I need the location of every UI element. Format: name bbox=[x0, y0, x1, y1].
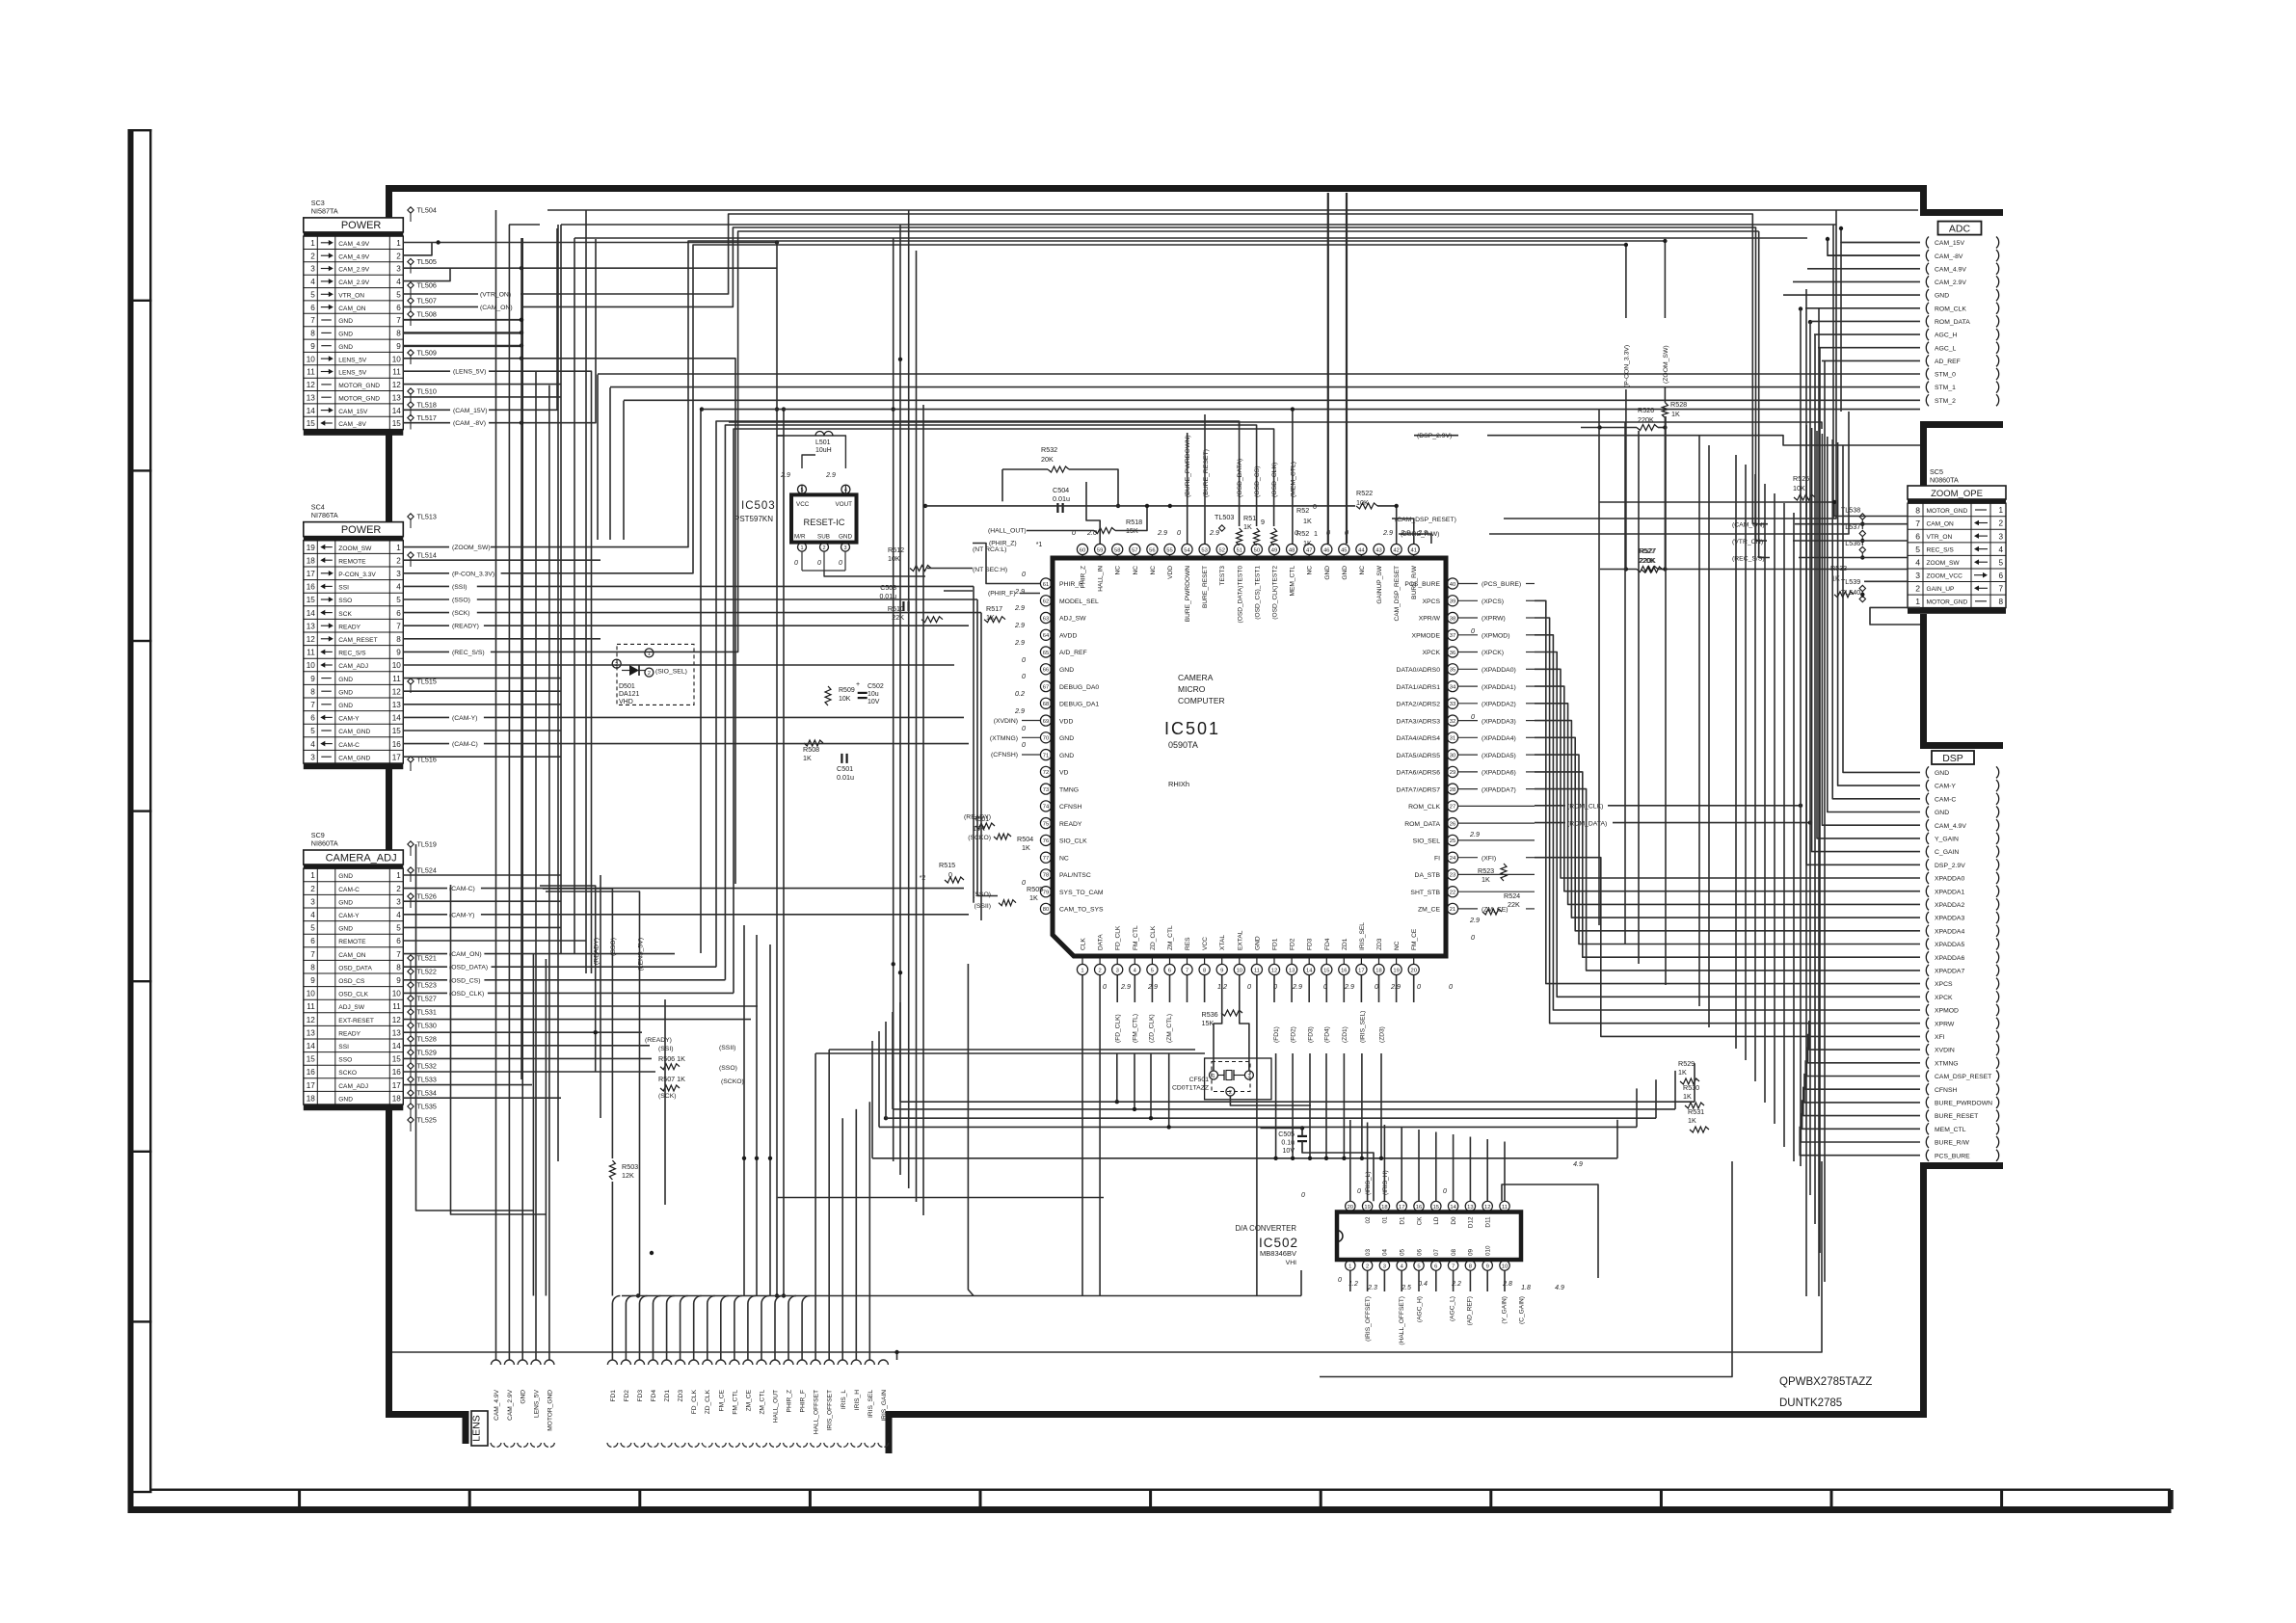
svg-text:0: 0 bbox=[1022, 570, 1026, 578]
svg-text:7: 7 bbox=[310, 701, 315, 709]
svg-text:07: 07 bbox=[1433, 1248, 1440, 1256]
svg-text:(SSO): (SSO) bbox=[719, 1065, 737, 1072]
svg-text:DEBUG_DA0: DEBUG_DA0 bbox=[1059, 684, 1099, 691]
svg-text:42: 42 bbox=[1393, 547, 1399, 553]
svg-text:GND: GND bbox=[338, 344, 353, 351]
svg-text:15: 15 bbox=[392, 1055, 402, 1064]
svg-text:22K: 22K bbox=[1508, 900, 1520, 909]
svg-text:4: 4 bbox=[310, 740, 315, 749]
svg-text:(IRIS_SEL): (IRIS_SEL) bbox=[1359, 1011, 1366, 1043]
svg-text:16: 16 bbox=[1341, 968, 1347, 973]
svg-text:12: 12 bbox=[1271, 968, 1277, 973]
svg-text:D501: D501 bbox=[619, 683, 635, 690]
svg-text:15: 15 bbox=[307, 596, 316, 604]
svg-text:CAM-C: CAM-C bbox=[338, 887, 360, 893]
svg-text:D11: D11 bbox=[1485, 1216, 1492, 1228]
svg-text:TL510: TL510 bbox=[417, 387, 437, 396]
svg-text:2: 2 bbox=[310, 885, 315, 893]
svg-text:TL523: TL523 bbox=[417, 981, 437, 990]
svg-text:TL521: TL521 bbox=[417, 954, 437, 963]
svg-text:2: 2 bbox=[822, 545, 825, 551]
svg-text:2.9: 2.9 bbox=[1014, 706, 1025, 715]
svg-text:DATA7/ADRS7: DATA7/ADRS7 bbox=[1397, 786, 1441, 793]
svg-text:AD_REF: AD_REF bbox=[1935, 359, 1961, 365]
svg-text:3: 3 bbox=[396, 897, 401, 906]
svg-text:0: 0 bbox=[1357, 1188, 1361, 1195]
svg-text:CAM_TO_SYS: CAM_TO_SYS bbox=[1059, 907, 1104, 914]
svg-text:0: 0 bbox=[1471, 933, 1475, 942]
svg-text:SCKO: SCKO bbox=[338, 1070, 357, 1077]
svg-text:1K: 1K bbox=[1678, 1068, 1687, 1077]
svg-text:M/R: M/R bbox=[794, 534, 806, 541]
svg-text:PAL/NTSC: PAL/NTSC bbox=[1059, 872, 1091, 879]
svg-text:(SSII): (SSII) bbox=[719, 1045, 735, 1051]
svg-text:6: 6 bbox=[310, 714, 315, 723]
svg-text:TL532: TL532 bbox=[417, 1062, 437, 1071]
svg-text:010: 010 bbox=[1485, 1245, 1492, 1256]
svg-text:ZOOM_OPE: ZOOM_OPE bbox=[1931, 489, 1983, 499]
svg-text:COMPUTER: COMPUTER bbox=[1178, 696, 1225, 705]
svg-text:GND: GND bbox=[1324, 566, 1331, 580]
svg-text:TL533: TL533 bbox=[417, 1076, 437, 1084]
svg-text:46: 46 bbox=[1323, 547, 1329, 553]
svg-text:XTMNG: XTMNG bbox=[1935, 1060, 1959, 1067]
svg-text:14: 14 bbox=[307, 407, 316, 415]
svg-text:(AGC_L): (AGC_L) bbox=[1450, 1296, 1456, 1321]
svg-text:(OSD_DATA): (OSD_DATA) bbox=[1237, 459, 1243, 497]
svg-text:L501: L501 bbox=[815, 439, 831, 446]
svg-text:FM_CTL: FM_CTL bbox=[732, 1390, 738, 1415]
svg-text:7: 7 bbox=[1452, 1264, 1455, 1269]
svg-text:(ROM_CLK): (ROM_CLK) bbox=[1567, 804, 1603, 811]
svg-text:GND: GND bbox=[338, 1096, 353, 1103]
svg-text:3: 3 bbox=[1247, 1074, 1250, 1079]
svg-text:CAM_GND: CAM_GND bbox=[338, 755, 370, 761]
svg-text:13: 13 bbox=[307, 622, 316, 630]
svg-text:FD1: FD1 bbox=[1272, 938, 1279, 950]
svg-text:1: 1 bbox=[1314, 529, 1318, 538]
svg-text:17: 17 bbox=[307, 570, 316, 578]
svg-text:CAM_GND: CAM_GND bbox=[338, 729, 370, 735]
svg-text:R518: R518 bbox=[1126, 518, 1142, 526]
svg-text:08: 08 bbox=[1451, 1248, 1457, 1256]
svg-text:(LENS_5V): (LENS_5V) bbox=[637, 938, 644, 971]
svg-text:(XPMOD): (XPMOD) bbox=[1482, 633, 1509, 640]
svg-text:22: 22 bbox=[1450, 891, 1455, 896]
svg-text:CAM-C: CAM-C bbox=[1935, 796, 1956, 803]
svg-text:XPRW: XPRW bbox=[1935, 1021, 1955, 1027]
svg-text:TL528: TL528 bbox=[417, 1035, 437, 1044]
svg-text:11: 11 bbox=[307, 649, 315, 657]
svg-text:1K: 1K bbox=[1022, 843, 1030, 852]
svg-text:VHI: VHI bbox=[1286, 1260, 1296, 1266]
svg-text:BURE_RESET: BURE_RESET bbox=[1935, 1113, 1978, 1120]
svg-text:IRIS_GAIN: IRIS_GAIN bbox=[881, 1390, 888, 1422]
svg-text:2.9: 2.9 bbox=[1014, 638, 1025, 647]
svg-text:31: 31 bbox=[1450, 736, 1455, 742]
svg-text:D0: D0 bbox=[1451, 1216, 1457, 1225]
svg-text:34: 34 bbox=[1450, 684, 1456, 690]
svg-text:14: 14 bbox=[1450, 1205, 1456, 1211]
svg-text:OSD_DATA: OSD_DATA bbox=[338, 965, 372, 971]
svg-text:01: 01 bbox=[1382, 1216, 1389, 1224]
svg-text:3: 3 bbox=[1383, 1264, 1386, 1269]
svg-text:STM_1: STM_1 bbox=[1935, 385, 1956, 391]
svg-text:2.9: 2.9 bbox=[1469, 916, 1480, 924]
svg-text:50: 50 bbox=[1254, 547, 1260, 553]
svg-text:0: 0 bbox=[1247, 982, 1251, 991]
svg-text:LENS: LENS bbox=[471, 1415, 483, 1441]
svg-text:XPADDA3: XPADDA3 bbox=[1935, 916, 1964, 922]
svg-text:(FD3): (FD3) bbox=[1308, 1026, 1315, 1043]
svg-text:1: 1 bbox=[1212, 1074, 1215, 1079]
svg-text:18: 18 bbox=[1375, 968, 1381, 973]
svg-text:12: 12 bbox=[307, 635, 316, 644]
svg-text:73: 73 bbox=[1043, 787, 1049, 793]
svg-text:CAM_4.9V: CAM_4.9V bbox=[494, 1389, 500, 1420]
svg-text:XPCK: XPCK bbox=[1422, 650, 1440, 656]
svg-text:1: 1 bbox=[1915, 597, 1920, 606]
svg-text:TL506: TL506 bbox=[417, 281, 437, 290]
svg-text:TL538: TL538 bbox=[1841, 506, 1860, 515]
svg-text:2.0: 2.0 bbox=[1086, 528, 1097, 537]
svg-text:11: 11 bbox=[307, 1002, 315, 1011]
svg-text:20: 20 bbox=[1348, 1205, 1353, 1211]
svg-text:1: 1 bbox=[800, 545, 803, 551]
svg-text:POWER: POWER bbox=[341, 524, 382, 536]
svg-text:GAINUP_SW: GAINUP_SW bbox=[1376, 565, 1383, 603]
svg-text:0: 0 bbox=[817, 560, 821, 567]
svg-text:17: 17 bbox=[307, 1081, 316, 1090]
svg-text:ZD3: ZD3 bbox=[678, 1390, 684, 1402]
svg-text:10uH: 10uH bbox=[815, 447, 832, 454]
svg-text:(CAM_DSP_RESET): (CAM_DSP_RESET) bbox=[1395, 517, 1456, 523]
svg-text:8: 8 bbox=[1203, 968, 1206, 973]
svg-text:(ZD_CLK): (ZD_CLK) bbox=[1149, 1014, 1156, 1043]
svg-text:NC: NC bbox=[1115, 566, 1122, 575]
svg-text:9: 9 bbox=[310, 342, 315, 351]
svg-text:CAM-Y: CAM-Y bbox=[338, 913, 360, 919]
svg-text:(XPCS): (XPCS) bbox=[1482, 599, 1504, 605]
svg-text:CD0T1TAZZ: CD0T1TAZZ bbox=[1172, 1085, 1209, 1092]
svg-text:TL535: TL535 bbox=[417, 1103, 437, 1111]
svg-text:32: 32 bbox=[1450, 719, 1455, 725]
svg-text:0: 0 bbox=[1375, 982, 1378, 991]
svg-text:MB8346BV: MB8346BV bbox=[1260, 1249, 1296, 1258]
svg-text:14: 14 bbox=[392, 714, 402, 723]
svg-text:TMNG: TMNG bbox=[1059, 786, 1079, 793]
svg-text:0: 0 bbox=[1022, 878, 1026, 887]
svg-text:1.8: 1.8 bbox=[1521, 1285, 1531, 1291]
svg-text:55: 55 bbox=[1166, 547, 1172, 553]
svg-text:GND: GND bbox=[338, 926, 353, 933]
svg-text:PST597KN: PST597KN bbox=[734, 515, 773, 523]
svg-text:8: 8 bbox=[396, 635, 401, 644]
svg-text:FD4: FD4 bbox=[1324, 938, 1331, 950]
svg-text:11: 11 bbox=[392, 675, 401, 683]
svg-text:0: 0 bbox=[1417, 982, 1421, 991]
svg-text:4: 4 bbox=[396, 911, 401, 919]
svg-text:DATA6/ADRS6: DATA6/ADRS6 bbox=[1397, 770, 1441, 777]
svg-text:1: 1 bbox=[310, 871, 315, 880]
svg-text:R515: R515 bbox=[939, 861, 955, 869]
svg-text:(OSD_DATA): (OSD_DATA) bbox=[449, 965, 488, 971]
svg-text:(SCK): (SCK) bbox=[658, 1093, 677, 1100]
svg-text:IC503: IC503 bbox=[741, 500, 776, 512]
svg-text:05: 05 bbox=[1400, 1248, 1406, 1256]
svg-text:R510: R510 bbox=[888, 604, 904, 613]
svg-text:CAM_ADJ: CAM_ADJ bbox=[338, 1083, 368, 1090]
svg-text:38: 38 bbox=[1450, 616, 1455, 622]
svg-text:TL534: TL534 bbox=[417, 1089, 437, 1098]
svg-text:CAMERA: CAMERA bbox=[1178, 673, 1214, 682]
svg-text:PHIR_F: PHIR_F bbox=[800, 1390, 807, 1412]
svg-text:ZD_CLK: ZD_CLK bbox=[1150, 925, 1157, 950]
svg-text:ROM_CLK: ROM_CLK bbox=[1408, 804, 1440, 811]
svg-text:MOTOR_GND: MOTOR_GND bbox=[338, 395, 380, 402]
svg-text:0: 0 bbox=[1471, 626, 1475, 635]
svg-text:15K: 15K bbox=[1202, 1019, 1215, 1027]
svg-text:BURE_R/W: BURE_R/W bbox=[1935, 1140, 1969, 1147]
svg-text:2.9: 2.9 bbox=[1120, 982, 1131, 991]
svg-text:20: 20 bbox=[1410, 968, 1416, 973]
svg-text:17: 17 bbox=[392, 753, 402, 761]
svg-text:XPCK: XPCK bbox=[1935, 995, 1953, 1001]
svg-text:(FD4): (FD4) bbox=[1324, 1026, 1331, 1043]
svg-text:12: 12 bbox=[307, 381, 316, 389]
svg-text:9: 9 bbox=[1220, 968, 1223, 973]
svg-text:(VTR_ON): (VTR_ON) bbox=[480, 292, 511, 299]
svg-text:0590TA: 0590TA bbox=[1168, 740, 1198, 750]
svg-text:GND: GND bbox=[338, 677, 353, 683]
svg-text:8: 8 bbox=[1915, 505, 1920, 515]
svg-text:ZD1: ZD1 bbox=[664, 1390, 671, 1402]
svg-text:12: 12 bbox=[392, 687, 402, 696]
svg-text:35: 35 bbox=[1450, 668, 1455, 674]
svg-text:0.01u: 0.01u bbox=[837, 773, 854, 782]
svg-text:(P-CON_3.3V): (P-CON_3.3V) bbox=[1624, 345, 1631, 387]
svg-text:AVDD: AVDD bbox=[1059, 633, 1077, 640]
svg-text:*2: *2 bbox=[920, 875, 926, 882]
svg-text:40: 40 bbox=[1450, 582, 1455, 588]
svg-text:0: 0 bbox=[1022, 740, 1026, 749]
svg-text:(CAM-C): (CAM-C) bbox=[449, 886, 475, 892]
svg-text:NC: NC bbox=[1394, 941, 1401, 950]
svg-text:DATA: DATA bbox=[1098, 934, 1105, 950]
svg-text:R503: R503 bbox=[622, 1162, 638, 1171]
svg-text:ZM_CTL: ZM_CTL bbox=[1167, 925, 1174, 950]
svg-text:PHIR_F: PHIR_F bbox=[1059, 581, 1082, 588]
svg-text:2.8: 2.8 bbox=[1502, 1281, 1512, 1288]
svg-text:DATA2/ADRS2: DATA2/ADRS2 bbox=[1397, 702, 1441, 708]
svg-text:QPWBX2785TAZZ: QPWBX2785TAZZ bbox=[1779, 1376, 1872, 1388]
svg-text:(OSD_CS): (OSD_CS) bbox=[1254, 466, 1261, 497]
svg-text:R532: R532 bbox=[1041, 445, 1057, 454]
svg-text:60: 60 bbox=[1080, 547, 1085, 553]
svg-text:41: 41 bbox=[1410, 547, 1416, 553]
svg-text:16: 16 bbox=[1416, 1205, 1422, 1211]
svg-text:EXT-RESET: EXT-RESET bbox=[338, 1018, 374, 1024]
svg-text:19: 19 bbox=[1364, 1205, 1370, 1211]
svg-text:(NT RCA:L): (NT RCA:L) bbox=[973, 546, 1006, 553]
svg-text:10: 10 bbox=[392, 661, 402, 670]
svg-text:IRIS_OFFSET: IRIS_OFFSET bbox=[827, 1390, 834, 1431]
svg-text:N0860TA: N0860TA bbox=[1930, 476, 1959, 485]
svg-text:R531: R531 bbox=[1688, 1107, 1704, 1116]
svg-text:FD_CLK: FD_CLK bbox=[1115, 925, 1122, 950]
svg-text:13: 13 bbox=[392, 393, 402, 402]
svg-text:70: 70 bbox=[1043, 736, 1049, 742]
svg-text:10K: 10K bbox=[1793, 484, 1805, 492]
svg-text:1K: 1K bbox=[1303, 517, 1312, 525]
svg-text:78: 78 bbox=[1043, 873, 1049, 879]
svg-text:D/A CONVERTER: D/A CONVERTER bbox=[1235, 1224, 1296, 1233]
svg-text:(CAM_ON): (CAM_ON) bbox=[480, 305, 513, 311]
svg-text:(LENS_5V): (LENS_5V) bbox=[453, 369, 486, 376]
svg-text:0: 0 bbox=[1072, 528, 1076, 537]
svg-text:R524: R524 bbox=[1504, 891, 1520, 900]
svg-text:(MEM_CTL): (MEM_CTL) bbox=[1290, 462, 1296, 497]
svg-text:54: 54 bbox=[1184, 547, 1190, 553]
svg-text:71: 71 bbox=[1043, 753, 1049, 758]
svg-text:65: 65 bbox=[1043, 651, 1049, 656]
svg-text:4: 4 bbox=[1998, 545, 2003, 554]
svg-text:CAM_DSP_RESET: CAM_DSP_RESET bbox=[1935, 1074, 1991, 1080]
svg-text:2: 2 bbox=[1229, 1090, 1232, 1096]
svg-text:AGC_H: AGC_H bbox=[1935, 333, 1958, 339]
svg-text:POWER: POWER bbox=[341, 220, 382, 231]
svg-text:BURE_RESET: BURE_RESET bbox=[1202, 566, 1209, 608]
svg-text:R512: R512 bbox=[888, 545, 904, 554]
svg-text:(IRIS_OFFSET): (IRIS_OFFSET) bbox=[1365, 1296, 1372, 1342]
svg-text:10: 10 bbox=[392, 990, 402, 998]
svg-text:30: 30 bbox=[1450, 753, 1455, 758]
svg-text:TL531: TL531 bbox=[417, 1008, 437, 1017]
svg-text:HALL_OFFSET: HALL_OFFSET bbox=[814, 1390, 820, 1434]
svg-text:2.9: 2.9 bbox=[825, 472, 836, 479]
svg-text:(READY): (READY) bbox=[452, 624, 479, 630]
svg-text:TL505: TL505 bbox=[417, 257, 437, 266]
svg-text:TL503: TL503 bbox=[1215, 513, 1234, 521]
svg-text:ZD3: ZD3 bbox=[1376, 938, 1383, 950]
svg-text:CF501: CF501 bbox=[1189, 1077, 1210, 1083]
svg-text:(IRIS_H): (IRIS_H) bbox=[1382, 1170, 1389, 1195]
svg-text:(SCKO): (SCKO) bbox=[721, 1078, 744, 1085]
svg-text:74: 74 bbox=[1043, 805, 1050, 811]
svg-text:(SIO_SEL): (SIO_SEL) bbox=[655, 669, 687, 676]
svg-text:62: 62 bbox=[1043, 599, 1049, 605]
svg-text:5: 5 bbox=[1417, 1264, 1420, 1269]
svg-text:10: 10 bbox=[307, 990, 316, 998]
svg-text:(XPADDA5): (XPADDA5) bbox=[1482, 753, 1516, 759]
svg-text:6: 6 bbox=[310, 304, 315, 312]
svg-text:GND: GND bbox=[1059, 735, 1074, 742]
svg-text:SUB: SUB bbox=[817, 534, 830, 541]
svg-text:17: 17 bbox=[1399, 1205, 1404, 1211]
svg-text:XPCS: XPCS bbox=[1422, 599, 1440, 605]
svg-text:06: 06 bbox=[1416, 1248, 1423, 1256]
svg-text:56: 56 bbox=[1149, 547, 1155, 553]
svg-text:(XPADDA2): (XPADDA2) bbox=[1482, 702, 1516, 708]
svg-text:0: 0 bbox=[794, 560, 798, 567]
svg-text:R522: R522 bbox=[1356, 489, 1373, 497]
svg-text:6: 6 bbox=[1434, 1264, 1437, 1269]
svg-text:DA121: DA121 bbox=[619, 691, 640, 698]
svg-text:SYS_TO_CAM: SYS_TO_CAM bbox=[1059, 890, 1104, 896]
svg-text:7: 7 bbox=[310, 316, 315, 325]
svg-text:1K: 1K bbox=[1671, 410, 1680, 418]
svg-text:CAM_4.9V: CAM_4.9V bbox=[338, 253, 369, 260]
svg-text:76: 76 bbox=[1043, 838, 1049, 844]
svg-text:28: 28 bbox=[1450, 787, 1455, 793]
svg-text:(XTMNG): (XTMNG) bbox=[990, 735, 1018, 742]
svg-text:10: 10 bbox=[1237, 968, 1242, 973]
svg-text:(XPADDA6): (XPADDA6) bbox=[1482, 770, 1516, 777]
svg-text:(XPADDA0): (XPADDA0) bbox=[1482, 667, 1516, 674]
svg-text:27: 27 bbox=[1450, 805, 1455, 811]
svg-text:1K: 1K bbox=[1683, 1092, 1692, 1101]
svg-text:(BURE_RESET): (BURE_RESET) bbox=[1203, 449, 1210, 497]
svg-text:1K: 1K bbox=[1482, 875, 1490, 884]
svg-text:CAM_2.9V: CAM_2.9V bbox=[338, 267, 369, 274]
svg-text:2: 2 bbox=[1915, 584, 1920, 594]
svg-text:SIO_SEL: SIO_SEL bbox=[1413, 838, 1441, 845]
svg-text:5: 5 bbox=[1151, 968, 1154, 973]
svg-text:80: 80 bbox=[1043, 907, 1049, 913]
svg-text:ZD_CLK: ZD_CLK bbox=[705, 1389, 711, 1414]
svg-text:1K: 1K bbox=[1688, 1116, 1696, 1125]
svg-text:SSO: SSO bbox=[338, 598, 352, 604]
svg-text:DUNTK2785: DUNTK2785 bbox=[1779, 1397, 1842, 1409]
svg-text:6: 6 bbox=[396, 304, 401, 312]
svg-text:15: 15 bbox=[307, 1055, 316, 1064]
svg-text:R52: R52 bbox=[1296, 529, 1309, 538]
svg-text:TL530: TL530 bbox=[417, 1022, 437, 1030]
svg-text:R507 1K: R507 1K bbox=[658, 1075, 685, 1083]
svg-text:ZOOM_SW: ZOOM_SW bbox=[338, 545, 372, 552]
svg-text:READY: READY bbox=[338, 624, 360, 630]
svg-text:R536: R536 bbox=[1202, 1010, 1218, 1019]
svg-text:44: 44 bbox=[1358, 547, 1365, 553]
svg-text:13: 13 bbox=[392, 1028, 402, 1037]
svg-text:7: 7 bbox=[1998, 585, 2003, 594]
svg-text:72: 72 bbox=[1043, 770, 1049, 776]
svg-text:2.9: 2.9 bbox=[1292, 982, 1302, 991]
svg-text:59: 59 bbox=[1097, 547, 1103, 553]
svg-text:14: 14 bbox=[392, 407, 402, 415]
svg-text:10: 10 bbox=[307, 355, 316, 363]
svg-text:DEBUG_DA1: DEBUG_DA1 bbox=[1059, 702, 1099, 708]
svg-text:CAM_ON: CAM_ON bbox=[338, 306, 365, 312]
svg-text:AGC_L: AGC_L bbox=[1935, 345, 1957, 352]
svg-text:11: 11 bbox=[1502, 1205, 1508, 1211]
svg-text:VDD: VDD bbox=[1167, 566, 1174, 579]
svg-text:4.9: 4.9 bbox=[1555, 1285, 1564, 1291]
svg-text:NC: NC bbox=[1359, 566, 1366, 575]
svg-text:19: 19 bbox=[1393, 968, 1399, 973]
svg-text:(AD_REF): (AD_REF) bbox=[1467, 1296, 1474, 1325]
svg-text:10u: 10u bbox=[868, 691, 879, 698]
svg-text:FD_CLK: FD_CLK bbox=[691, 1389, 698, 1414]
svg-text:04: 04 bbox=[1382, 1248, 1389, 1256]
svg-text:CAM_ADJ: CAM_ADJ bbox=[338, 663, 368, 670]
svg-text:SIO_CLK: SIO_CLK bbox=[1059, 838, 1087, 845]
svg-text:4: 4 bbox=[396, 583, 401, 592]
svg-text:09: 09 bbox=[1468, 1248, 1475, 1256]
svg-text:XPMOD: XPMOD bbox=[1935, 1008, 1959, 1015]
svg-text:(SCK): (SCK) bbox=[452, 610, 470, 617]
svg-text:5: 5 bbox=[396, 291, 401, 300]
